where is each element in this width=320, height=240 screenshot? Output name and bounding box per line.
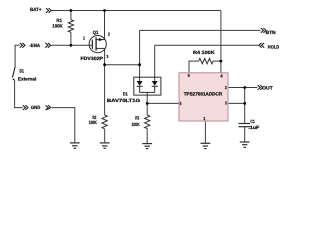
port chevron -ENA left (20, 43, 25, 48)
svg-text:TPS27081ADDCR: TPS27081ADDCR (184, 92, 223, 97)
switch S1 (12, 67, 15, 80)
node D1 left anode (138, 63, 141, 66)
wire D1 cathode to node A (146, 95, 148, 103)
wire Q1 pin2 to BAT+ (104, 11, 106, 40)
wire D1 left anode vertical (139, 30, 141, 81)
port chevron -ENA right (45, 43, 50, 48)
port chevron HOLD (259, 43, 264, 48)
wire BTN net (140, 29, 261, 31)
wire HOLD net (155, 44, 259, 46)
svg-text:Q1: Q1 (93, 30, 99, 35)
capacitor C1 (239, 124, 251, 127)
svg-text:BTN: BTN (266, 30, 277, 35)
node R1/-ENA (70, 44, 73, 47)
svg-text:GND: GND (31, 105, 41, 110)
svg-text:100K: 100K (52, 24, 63, 29)
resistor R3 (145, 115, 150, 129)
resistor R1 (68, 20, 73, 33)
wire pin 3 stub (228, 102, 245, 104)
svg-text:.1uF: .1uF (248, 125, 259, 130)
svg-text:100K: 100K (132, 122, 141, 127)
svg-text:BAT+: BAT+ (30, 7, 42, 12)
svg-text:External: External (18, 76, 36, 81)
svg-text:3: 3 (106, 54, 109, 59)
wire GND port to ground (52, 108, 75, 143)
wire switch bottom to GND port (15, 80, 23, 108)
node OUT/C1 (243, 86, 246, 89)
node junction dots (70, 9, 247, 105)
node Q1 pin2/BAT+ (103, 9, 106, 12)
svg-text:1: 1 (83, 36, 86, 41)
wire Q1 drain to diode node (105, 64, 140, 66)
transistor Q1 (89, 36, 106, 53)
resistor R2 (102, 115, 107, 129)
port chevron GND left (23, 105, 28, 110)
ground (pin 1) (201, 143, 211, 148)
svg-text:S1: S1 (19, 68, 24, 73)
svg-text:C1: C1 (250, 119, 255, 124)
port chevron OUT (258, 85, 263, 90)
node R4/pin4 (220, 60, 223, 63)
IC U1 TPS27081ADDCR body (179, 73, 228, 121)
wire C1 branch vertical (244, 88, 246, 124)
wire -ENA to gate (51, 44, 93, 46)
port chevron BAT+ (46, 8, 51, 13)
ground (R3) (142, 144, 152, 149)
svg-text:100K: 100K (89, 120, 98, 125)
ground (R2) (100, 143, 110, 148)
diode D1 BAV70LT1G (134, 77, 161, 95)
wire pin 2 to OUT (228, 87, 257, 89)
wire R3 top lead (146, 103, 148, 115)
wire BAT+ right vertical to pin 4 (220, 11, 222, 73)
svg-text:R4 100K: R4 100K (193, 50, 215, 55)
wire R2 bottom lead (104, 129, 106, 143)
node R1/BAT+ (70, 9, 73, 12)
wire R1 top lead (70, 11, 72, 20)
resistor R4 (199, 58, 213, 63)
wire BAT+ top horizontal (51, 10, 221, 12)
svg-text:OUT: OUT (262, 85, 273, 90)
svg-text:-ENA: -ENA (29, 43, 40, 48)
port chevron BTN (261, 28, 266, 33)
wire Q1 pin3 down to R2 (104, 48, 106, 115)
svg-text:FDV302P: FDV302P (81, 56, 103, 61)
wire switch to -ENA port (15, 45, 20, 67)
wire node A to pin 5 (147, 102, 179, 104)
wire C1 bottom lead (244, 127, 246, 142)
svg-text:R1: R1 (56, 18, 62, 23)
svg-text:BAV70LT1G: BAV70LT1G (107, 98, 141, 103)
node D1 cathode/R3/pin5 (146, 102, 149, 105)
node pin3/C1 (243, 102, 246, 105)
wire R4 to pin 4 node (213, 60, 221, 62)
ground (C1) (240, 142, 250, 147)
wire pin 6 to R4 (189, 61, 199, 73)
node Q1 pin3 branch (103, 63, 106, 66)
wire D1 right anode vertical (154, 45, 156, 81)
wire R1 bottom lead (70, 32, 72, 45)
wire pin 1 to ground (204, 121, 206, 143)
svg-text:HOLD: HOLD (268, 44, 280, 49)
port chevron GND right (46, 105, 51, 110)
svg-text:R3: R3 (135, 115, 139, 120)
wire R3 bottom lead (146, 129, 148, 144)
ground (left GND port) (70, 143, 80, 148)
svg-text:D1: D1 (123, 91, 128, 96)
svg-text:2: 2 (108, 31, 111, 36)
